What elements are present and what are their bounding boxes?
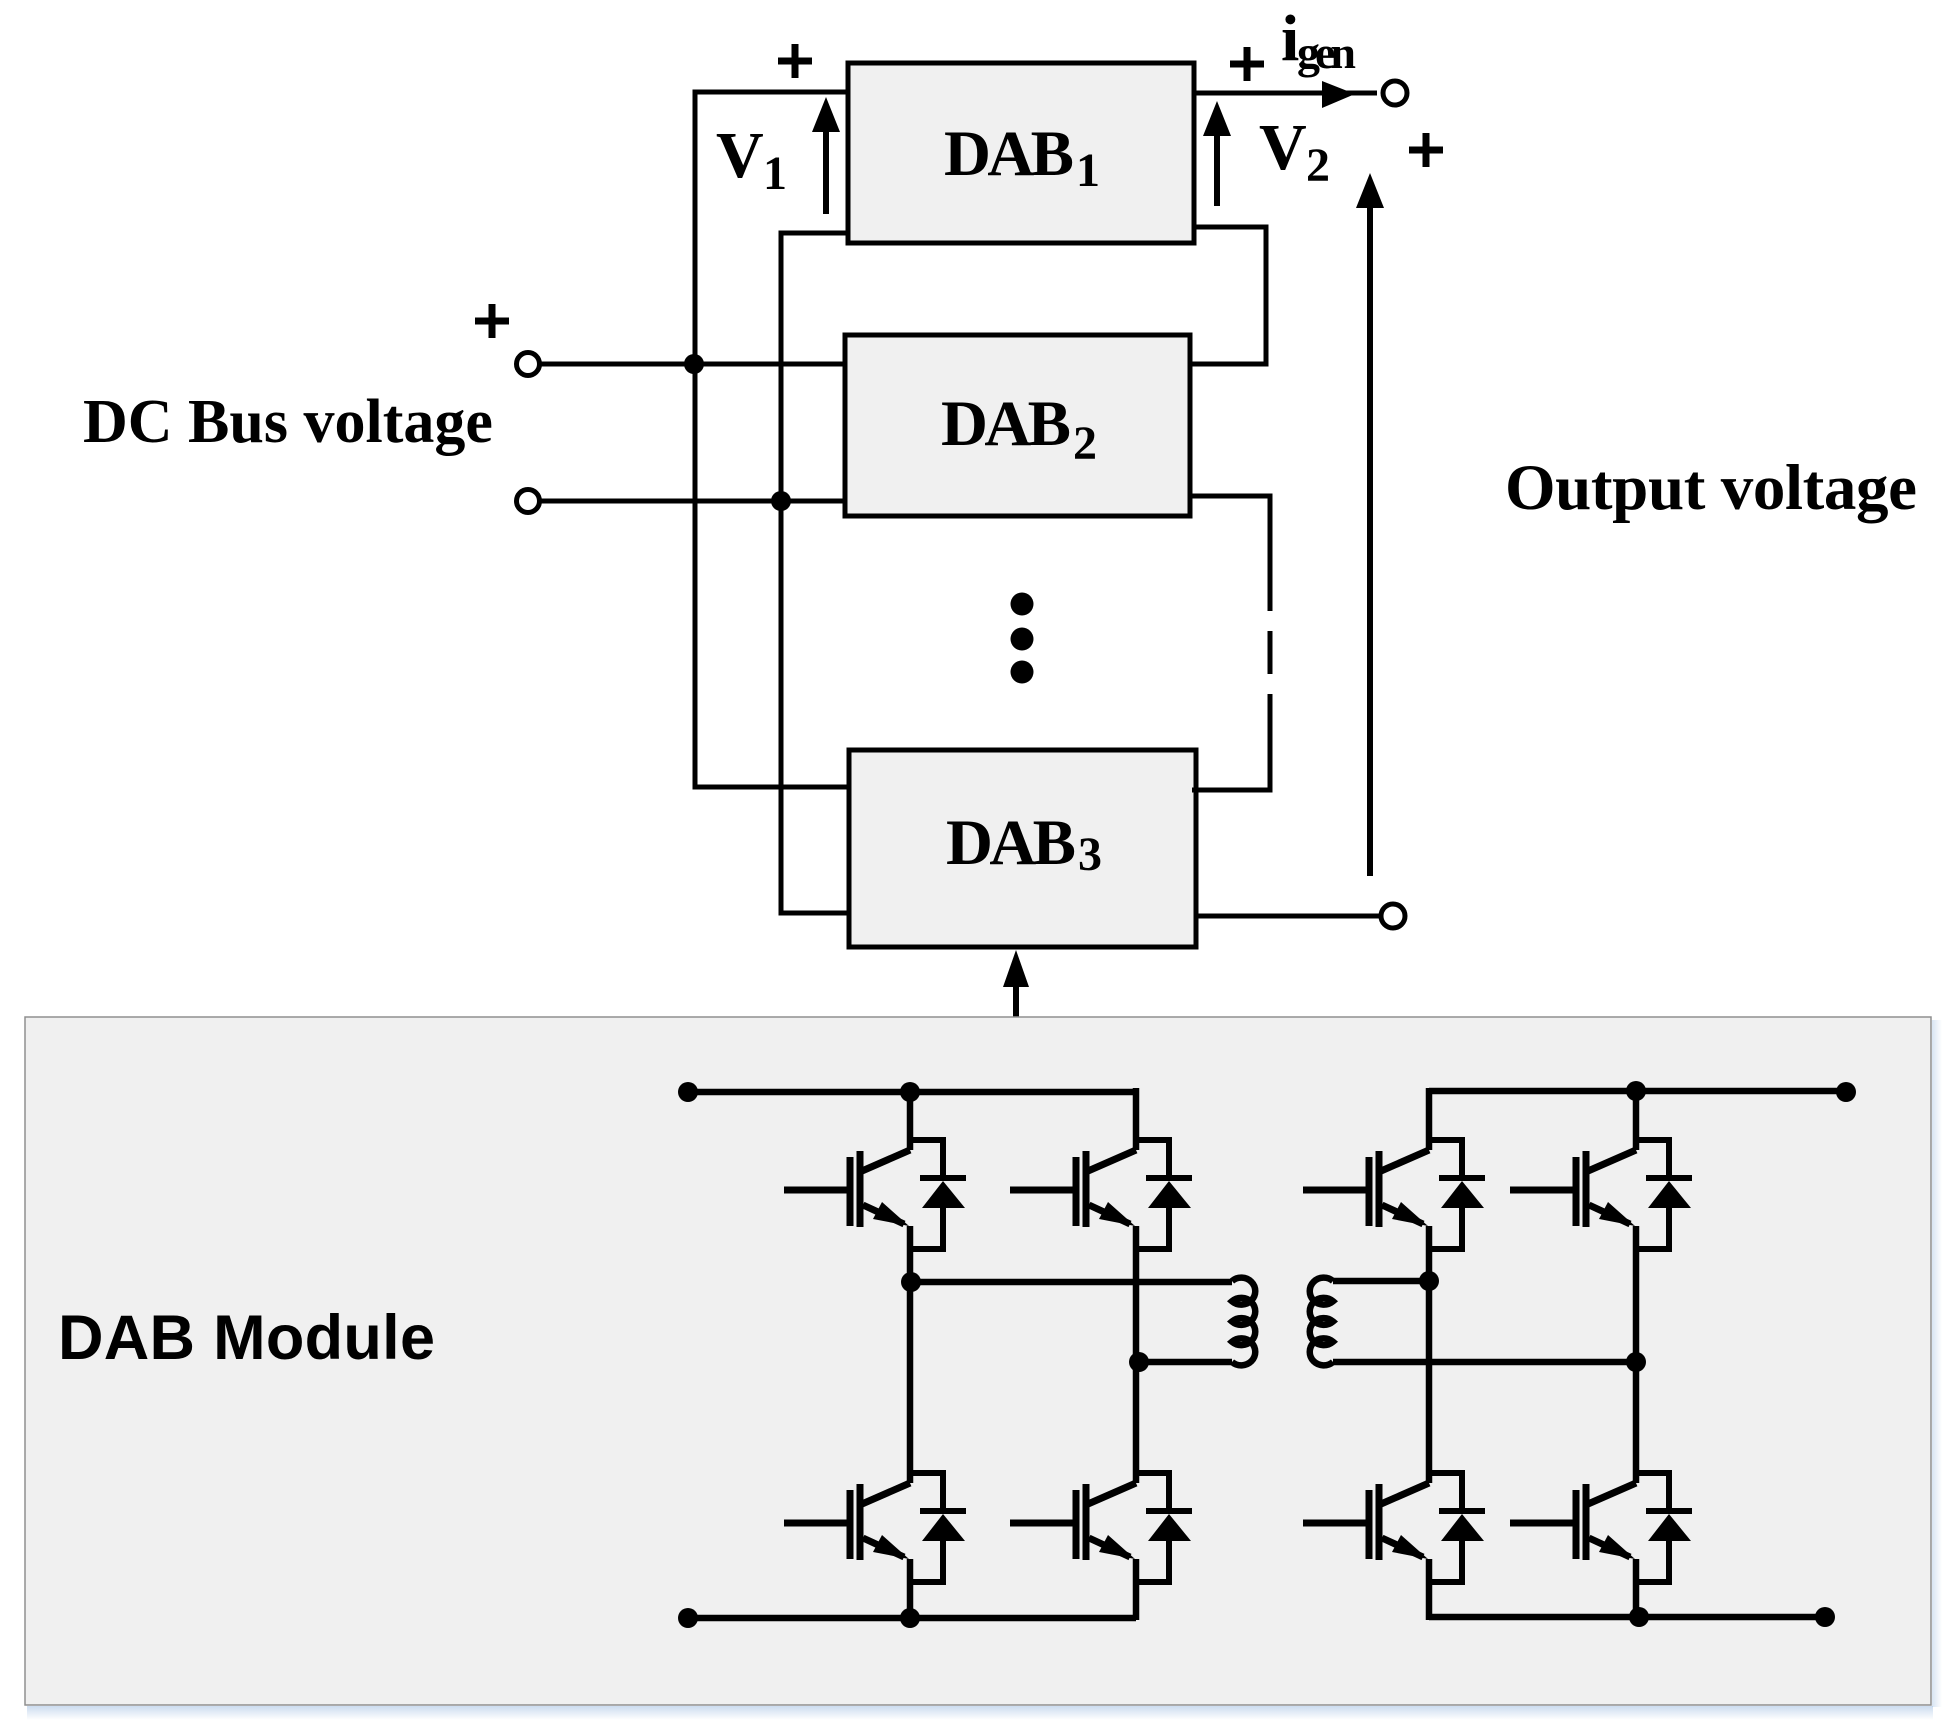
node: ellipsis dots between DAB2 and DAB3 [1011, 593, 1034, 616]
svg-text:V: V [716, 119, 764, 192]
wire: DC bus - terminal to DAB2 lower-left [541, 499, 848, 504]
terminal dots left bridge [678, 1082, 698, 1102]
wire: DAB2 lower-right to dashed link [1192, 496, 1270, 611]
wire: primary top lead [911, 1279, 1232, 1286]
terminal: output - [1381, 904, 1405, 928]
wire: DAB1 lower-right to DAB2 upper-right [1192, 227, 1266, 364]
terminal dots right bridge [1836, 1082, 1856, 1102]
node: right leg1 midpoint [1419, 1271, 1439, 1291]
svg-text:gen: gen [1297, 27, 1356, 78]
wire: secondary bottom lead [1333, 1359, 1636, 1366]
transistor Q8 right leg2 lower [1510, 1473, 1692, 1582]
terminal: igen output [1383, 81, 1407, 105]
block DAB2 [845, 335, 1190, 516]
leg verticals: left leg2 [1133, 1088, 1140, 1620]
transistor Q2 left leg1 lower [784, 1473, 966, 1582]
node: right leg2 midpoint [1626, 1352, 1646, 1372]
arrow: output voltage [1367, 204, 1373, 876]
plus sign output voltage [1409, 133, 1443, 167]
leg verticals: left leg1 [907, 1092, 914, 1618]
svg-text:DAB: DAB [941, 388, 1071, 460]
block DAB3 [849, 750, 1196, 947]
wire: primary bottom lead [1139, 1359, 1232, 1366]
svg-text:DAB: DAB [946, 807, 1076, 879]
wire: secondary top lead [1333, 1278, 1429, 1285]
svg-text:DAB Module: DAB Module [58, 1303, 435, 1373]
wire: DAB1 output with igen arrow to terminal [1194, 91, 1377, 96]
svg-text:Output voltage: Output voltage [1505, 452, 1917, 524]
transistor Q5 right leg1 upper [1303, 1140, 1485, 1249]
transistor Q4 left leg2 lower [1010, 1473, 1192, 1582]
svg-text:2: 2 [1306, 139, 1330, 192]
wire: right bridge top rail [1429, 1088, 1846, 1095]
wire: + bus from DAB1 upper-left down to DAB3 upper-left [695, 92, 852, 787]
node: junction + bus [684, 354, 704, 374]
terminal: DC bus - [517, 490, 540, 513]
plus sign top-right of DAB1 [1230, 47, 1264, 81]
winding: transformer secondary [1310, 1278, 1333, 1366]
svg-text:1: 1 [763, 147, 787, 200]
svg-text:DAB: DAB [944, 118, 1074, 190]
transistor Q7 right leg2 upper [1510, 1140, 1692, 1249]
transistor Q6 right leg1 lower [1303, 1473, 1485, 1582]
svg-text:3: 3 [1078, 828, 1102, 881]
wire: DAB3 lower-right to output terminal [1196, 914, 1379, 919]
wire: right bridge bottom rail [1429, 1614, 1825, 1621]
node: junction - bus [771, 491, 791, 511]
node: right leg2 bottom [1629, 1607, 1649, 1627]
node: left leg1 top [900, 1082, 920, 1102]
wire: left bridge bottom rail [688, 1615, 1136, 1622]
arrow: V1 [823, 128, 829, 214]
node: left leg2 midpoint [1129, 1352, 1149, 1372]
node: left leg1 midpoint [901, 1272, 921, 1292]
wire: left bridge top rail [688, 1089, 1136, 1096]
terminal: DC bus + [517, 353, 540, 376]
node: right leg2 top [1626, 1081, 1646, 1101]
arrow: V2 [1214, 132, 1220, 206]
wire: - bus from DAB1 lower-left down to DAB3 lower-left [781, 233, 852, 913]
arrow: modulation input to DAB3 [1013, 983, 1019, 1017]
winding: transformer primary [1232, 1278, 1255, 1366]
svg-text:V: V [1259, 111, 1307, 184]
svg-text:2: 2 [1073, 417, 1097, 470]
svg-text:DC Bus voltage: DC Bus voltage [83, 388, 493, 456]
plus sign DC bus [475, 304, 509, 338]
leg verticals: right leg1 [1426, 1088, 1433, 1620]
plus sign top-left of DAB1 [778, 44, 812, 78]
wire: DC bus + terminal to DAB2 upper-left [541, 362, 848, 367]
block DAB1 [848, 63, 1194, 243]
wire: dashed continuation segment [1268, 631, 1273, 674]
leg verticals: right leg2 [1633, 1091, 1640, 1617]
wire: link down to DAB3 upper-right [1192, 694, 1270, 790]
transistor Q3 left leg2 upper [1010, 1140, 1192, 1249]
node: left leg1 bottom [900, 1608, 920, 1628]
svg-text:1: 1 [1076, 144, 1100, 197]
transistor Q1 left leg1 upper [784, 1140, 966, 1249]
